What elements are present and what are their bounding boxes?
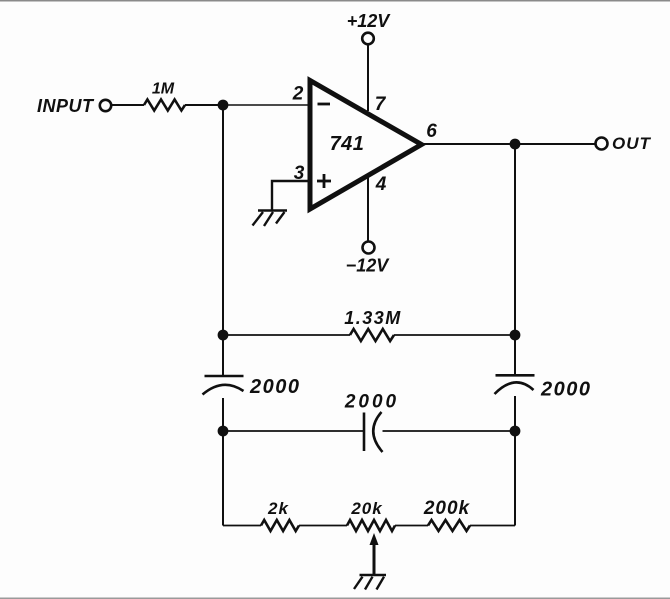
wire bottom row seg4 xyxy=(470,525,515,527)
ground (pin 3) xyxy=(253,211,288,227)
resistor R5 200k xyxy=(428,520,470,531)
wire right rail upper xyxy=(514,144,516,375)
capacitor C3 2000 (mid horizontal) xyxy=(364,412,383,452)
resistor R1 1M xyxy=(144,100,185,111)
terminal INPUT xyxy=(100,100,111,111)
wiper arrow of R4 xyxy=(370,533,379,545)
wire input to R1 xyxy=(112,104,145,106)
svg-text:2k: 2k xyxy=(267,499,289,518)
svg-text:2000: 2000 xyxy=(344,392,399,413)
wire pin 3 xyxy=(272,181,310,210)
op-amp U1 741 xyxy=(310,81,422,210)
wire left rail bottom xyxy=(222,431,224,526)
svg-text:2: 2 xyxy=(292,84,304,105)
terminal OUT xyxy=(596,138,608,150)
wire bottom row seg1 xyxy=(223,525,261,527)
wire left rail upper xyxy=(222,105,224,376)
svg-text:2000: 2000 xyxy=(249,376,301,398)
wire bottom row seg3 xyxy=(395,525,428,527)
capacitor C1 2000 (left vertical) xyxy=(203,376,244,395)
wire node A to pin 2 xyxy=(223,104,310,106)
node E junction dot (left, mid row) xyxy=(218,426,229,437)
wire pin7 vertical xyxy=(367,45,369,112)
svg-text:OUT: OUT xyxy=(612,134,652,153)
svg-text:1M: 1M xyxy=(152,81,175,98)
resistor R3 2k xyxy=(261,520,299,531)
svg-text:6: 6 xyxy=(426,121,437,142)
svg-text:20k: 20k xyxy=(350,499,383,518)
capacitor C2 2000 (right vertical) xyxy=(495,375,535,394)
node A junction dot xyxy=(218,100,229,111)
bottom scan border xyxy=(0,598,670,599)
svg-text:200k: 200k xyxy=(423,498,471,519)
wire feedback row right xyxy=(394,334,515,336)
svg-text:7: 7 xyxy=(375,94,387,115)
wire left rail lower (cap to mid row) xyxy=(222,398,224,431)
svg-text:1.33M: 1.33M xyxy=(344,308,402,328)
wire feedback row left xyxy=(223,334,350,336)
svg-text:4: 4 xyxy=(375,174,387,195)
node D junction dot (right, feedback row) xyxy=(510,330,521,341)
minus input mark xyxy=(318,103,331,106)
wire pin4 vertical xyxy=(367,177,369,242)
svg-text:2000: 2000 xyxy=(540,379,592,401)
terminal +12V xyxy=(362,33,374,45)
wire right rail lower (cap to mid row) xyxy=(514,396,516,431)
potentiometer R4 20k xyxy=(347,520,395,531)
terminal -12V xyxy=(363,242,375,254)
node C junction dot (left, feedback row) xyxy=(218,330,229,341)
wire R1 to node A xyxy=(185,104,218,106)
resistor R2 1.33M xyxy=(350,329,394,341)
top scan border xyxy=(0,0,670,2)
wire mid row right xyxy=(383,430,516,432)
wire mid row left xyxy=(223,430,364,432)
svg-text:741: 741 xyxy=(330,133,365,155)
wire right rail bottom xyxy=(514,431,516,526)
node F junction dot (right, mid row) xyxy=(510,426,521,437)
svg-text:−12V: −12V xyxy=(346,256,391,276)
node B junction dot (output) xyxy=(510,139,521,150)
wire output xyxy=(422,143,596,145)
ground (wiper) xyxy=(354,575,386,590)
wire bottom row seg2 xyxy=(299,525,347,527)
svg-text:INPUT: INPUT xyxy=(37,96,95,116)
plus input mark xyxy=(317,174,331,188)
svg-text:+12V: +12V xyxy=(347,11,392,31)
